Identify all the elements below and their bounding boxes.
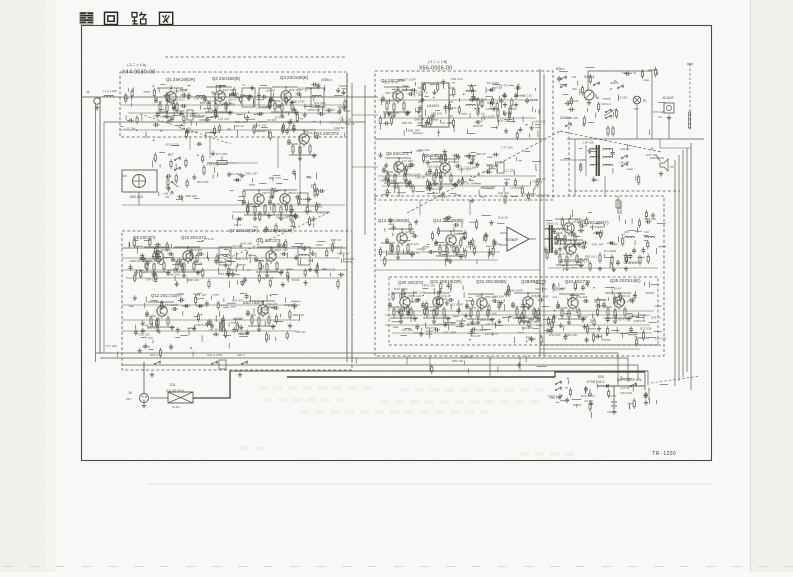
wire row2 to unitB y167 [352,166,378,168]
volume pot [221,318,223,332]
right bus vertical 4 [686,148,688,372]
diode D15 NE30 [596,231,598,235]
coil L40 [645,236,655,238]
title stripe icon [80,12,93,24]
output transformer T201 [596,145,598,176]
wire meter area h [560,159,586,161]
wire x575 drop [574,139,576,196]
wire x210 drop [209,137,211,158]
meter drop wire [587,71,589,90]
xtal X2 [497,162,504,173]
diagonal dashed wire B [560,131,661,152]
audio transformer T1 [549,225,551,253]
wire af rail y260 [380,259,498,261]
wire y270 tx top [375,269,540,271]
resistor cluster unit B [477,108,479,114]
relay coil K201-1 [555,383,557,385]
unit A upper dashed line [165,56,347,58]
title character 路 [132,12,146,24]
dashed wire to frame right power [651,376,700,383]
wire row1 rail y105 [120,104,345,106]
wire to frame right [567,138,704,140]
wire row4 rail y320 [122,319,300,321]
mic drop wire [143,362,145,393]
wire row1 rail y113 [128,112,338,114]
wire row4 rail y331 [122,330,298,332]
tx row dashed box [389,277,658,345]
diode D3 1S65 [236,178,238,182]
antenna element [689,112,691,128]
varactor VD-3 [238,217,240,221]
RIT switch cluster [174,159,176,161]
wire row3 rail y278 [126,277,342,279]
wire row1 to unitB y97 [347,96,378,98]
wire y258 row3 [122,257,340,259]
wire D11 to rail [193,371,230,398]
wire rit to stage [237,162,258,164]
bottom scan edge dashes [4,566,13,568]
right bus vertical 2 [678,155,680,381]
diagonal dashed wire D [220,212,330,262]
unit A lower dashed box [122,231,352,370]
wire J4 to D11 [150,397,168,399]
meter M [584,90,594,100]
dashed vertical x569 [568,121,570,196]
tx box drop x407 [406,356,408,365]
wire row1 bus [95,96,347,98]
right page edge [751,0,793,572]
row3 bias detail [129,237,355,289]
antenna input jack J1 [94,98,100,104]
IC LA1201 [422,83,449,127]
transistor Q19 2SC495(Y) [566,244,576,254]
unitB bottom drop x470 [469,200,471,215]
wire right bus bottom join [644,372,646,390]
wire y205 fet row [122,204,345,206]
wire row3 rail y270 [122,269,347,271]
power drop to battery [613,386,615,402]
wire unitB rail y100 [378,99,538,101]
drawing frame border [82,26,712,461]
long vertical wire x544 [543,74,545,356]
power rail heavy wire [287,376,555,378]
bus drop x628 [627,358,629,382]
vertical wire unit A right [346,73,348,362]
IFT T1 box [242,88,255,107]
power branch wire [555,372,645,377]
diode D1 1N60 [185,304,187,308]
faint fold line under frame [147,483,712,485]
wire x660 v [659,139,661,148]
xfmr area detail [564,140,640,185]
IFT box row3 [219,247,231,265]
wire y248 row3 [122,247,347,249]
dashed horizontal y191 [569,190,680,192]
audio out bias detail [544,210,666,272]
wire bottom bus 3 [122,364,638,366]
wire x300 drop [299,137,301,193]
control cluster detail [153,140,234,202]
wire row1 lower [120,129,340,131]
wire bottom bus 1 [95,352,618,354]
fet row bias detail [233,169,329,233]
title character 回 [105,12,118,24]
bleed-through smudges [240,386,574,456]
wire t201 left [585,145,587,176]
capacitor C power [644,393,648,395]
title character 図 [160,12,173,24]
wire unitB rail y118 [380,117,536,119]
unit A row1 bias detail [120,83,355,141]
unit A dashed box [120,72,347,137]
mixer crystal [187,110,193,120]
right bus vertical 5 [690,143,692,390]
diode D6 1N60 [490,101,492,105]
RIT pot R25 [207,162,237,164]
tx box bottom drop 1 [489,356,491,377]
IFT box row3 b [298,247,310,265]
wire y345 join [540,344,661,346]
wire af rail y252 [378,251,500,253]
diode D16 NE30 [610,241,612,245]
coil L55 [625,236,635,238]
unit B dashed box [375,71,553,200]
meter area detail [557,67,666,135]
power section detail [550,376,669,418]
crystal XTAL-2 [219,360,226,369]
coil L21 [466,90,476,92]
wire y349 join [540,348,640,350]
wire bottom bus 2 [100,357,628,359]
antenna top cap [687,63,693,65]
wire tx rail y311 [392,310,654,312]
wire x652 vertical [651,71,653,139]
IFT T3 box [311,88,324,107]
right bus vertical 1 [674,160,676,386]
scan noise texture [0,0,1,1]
tx box drop x520 [519,356,521,371]
resistor net right [599,255,601,261]
row4 bias detail [129,293,306,343]
relay contact K201-4 [617,87,619,89]
wire y325 tx [385,324,650,326]
diagonal dashed wire C [140,114,231,144]
left page margin shading [0,0,46,572]
meter top wire [588,70,652,72]
bus drop x618 [617,353,619,385]
right bus top connector [660,147,691,149]
wire fetrow rail y208 [232,211,330,213]
coupling coil L2 [196,95,206,97]
diode D2 1N60 [199,304,201,308]
unit B row1 bias detail [379,77,546,140]
diagonal dashed wire A [407,131,560,213]
unit B divider wire [375,138,545,140]
speaker SP [660,159,668,171]
unitB bottom drop x420 [419,200,421,215]
right bus vertical 3 [682,150,684,377]
op-amp U1 TA7062P [507,227,529,251]
left bus vertical 3 [103,122,105,353]
bus drop x638 [637,365,639,379]
diode D8 1N60 [470,161,472,165]
wire unitB2 rail y186 [382,185,530,187]
diode D5 1N60 [490,88,492,92]
varistor stack [607,128,609,134]
vertical wire x365 [364,85,366,235]
vertical wire unit A right 2 [351,83,353,362]
wire audio right rail y268 [548,267,658,269]
tx box bottom drop 2 [429,356,431,371]
battery B1 UM-3x8 [611,401,617,403]
power switch wire [598,385,645,387]
wire mic down [138,192,140,205]
wire x190 drop row4 [189,137,191,150]
wire bottom bus 4 [230,370,648,372]
discriminator caps [503,94,507,96]
bus drop x648 [647,371,649,385]
wire x95 bottom left drop [95,353,97,362]
tx row bias detail [392,280,667,347]
wire unitB2 rail y176 [378,175,536,177]
pilot lamp PL [633,96,641,104]
wire y305 row4 [122,304,300,306]
input coil L1 [104,95,114,97]
xtal filter [300,193,308,205]
wire y315 tx [385,314,650,316]
transmitter unit dashed box [375,196,664,356]
diode D9 B-1S1555 [487,170,489,174]
bottom rail stubs [106,340,230,358]
af stage bias detail [379,215,508,266]
long vertical wire x540 [539,69,541,356]
IFT T2 box [259,88,271,107]
wire under row1 [104,121,365,123]
bottom bus stubs [356,354,546,374]
microphone box MIC A-B [122,170,157,192]
wire row1 to unitB y115 [352,114,378,116]
left vertical bus wire 2 [95,103,97,353]
wire x278 drop [277,137,279,168]
mic connector stub [122,175,127,177]
wire tx rail y333 [392,332,652,334]
left vertical bus wire [99,97,101,353]
antenna dashed lead [689,64,691,131]
unit B row2 bias detail [378,145,549,204]
J2 down wire [668,117,670,139]
wire x605 drop [604,176,606,196]
